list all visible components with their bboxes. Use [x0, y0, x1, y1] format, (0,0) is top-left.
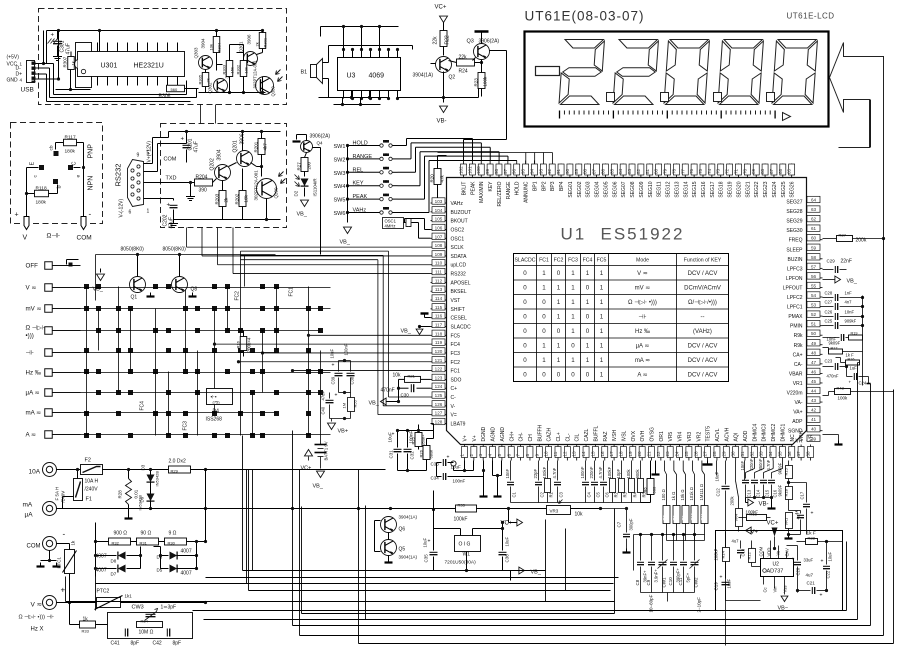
svg-text:300pF: 300pF	[629, 518, 634, 530]
svg-text:Hz Х: Hz Х	[31, 627, 44, 633]
svg-text:R34: R34	[141, 619, 149, 624]
svg-text:Mode: Mode	[636, 258, 649, 264]
svg-text:FC1: FC1	[451, 369, 461, 375]
svg-text:USB: USB	[21, 87, 34, 94]
svg-text:R17: R17	[831, 347, 838, 351]
DB9 labels	[114, 151, 150, 216]
svg-text:8pF: 8pF	[173, 641, 182, 647]
svg-text:V+: V+	[472, 435, 478, 441]
svg-text:93: 93	[538, 168, 543, 174]
resistor R6	[641, 461, 657, 503]
svg-text:OVSG: OVSG	[650, 427, 656, 442]
svg-text:BATT1 9V: BATT1 9V	[324, 441, 329, 460]
svg-text:V ≂: V ≂	[31, 602, 43, 609]
svg-text:R305: R305	[198, 74, 203, 84]
svg-text:FC3: FC3	[568, 258, 578, 264]
ground SGND	[823, 435, 843, 445]
U3 wires	[319, 25, 413, 106]
svg-text:20: 20	[637, 451, 642, 457]
svg-text:C15: C15	[765, 489, 770, 497]
wire	[151, 470, 208, 511]
wire USB data	[36, 31, 61, 102]
svg-text:66: 66	[778, 168, 783, 174]
PTC2	[95, 589, 133, 610]
svg-text:4u7: 4u7	[732, 539, 740, 544]
svg-text:100nF: 100nF	[344, 343, 349, 355]
svg-text:+: +	[332, 363, 335, 369]
svg-text:BKOUT: BKOUT	[451, 219, 468, 225]
resistor R202	[235, 169, 249, 220]
wire LBAT9	[396, 424, 434, 473]
svg-text:C25: C25	[825, 319, 833, 324]
ground TEST5	[703, 461, 713, 465]
power VB_ SLACDC	[401, 325, 431, 335]
svg-text:0: 0	[542, 328, 546, 335]
svg-text:C21: C21	[807, 581, 816, 586]
transistor Q8	[163, 247, 198, 297]
svg-text:VAHz: VAHz	[451, 201, 464, 207]
wire RS232 to U1 bus	[187, 228, 431, 274]
svg-text:PNP: PNP	[88, 144, 95, 159]
svg-text:95: 95	[521, 168, 526, 174]
svg-text:BUFFL: BUFFL	[593, 425, 599, 441]
svg-text:Q6: Q6	[399, 527, 406, 533]
svg-text:220nF: 220nF	[589, 466, 594, 478]
trimmer VR1	[784, 510, 799, 538]
svg-text:65: 65	[787, 168, 792, 174]
svg-text:180k: 180k	[36, 200, 47, 206]
buzzer B1	[301, 59, 323, 84]
svg-text:VC+: VC+	[301, 466, 312, 472]
svg-text:R38: R38	[808, 536, 816, 541]
svg-text:AGND: AGND	[491, 427, 497, 442]
svg-text:+: +	[720, 575, 723, 581]
svg-text:8pF: 8pF	[131, 641, 140, 647]
svg-text:0: 0	[557, 270, 561, 277]
power VC+ filled	[767, 521, 779, 551]
svg-text:1: 1	[571, 314, 575, 321]
svg-text:29: 29	[721, 451, 726, 457]
wire transistor net	[187, 45, 266, 98]
svg-text:U301: U301	[101, 63, 118, 70]
svg-text:VA-: VA-	[795, 400, 803, 406]
svg-text:/240V: /240V	[85, 487, 99, 493]
svg-text:27: 27	[703, 451, 708, 457]
wire	[438, 156, 447, 161]
svg-text:µA ≂: µA ≂	[26, 390, 40, 397]
svg-text:SW5: SW5	[334, 198, 346, 204]
svg-text:R9k: R9k	[794, 343, 803, 349]
diode D5	[157, 565, 199, 577]
svg-text:10: 10	[544, 451, 549, 457]
svg-text:R21: R21	[408, 374, 416, 379]
svg-text:28: 28	[712, 451, 717, 457]
resistor R43	[823, 386, 894, 401]
transistor Q201	[233, 133, 253, 166]
wire F1 top	[76, 468, 79, 479]
svg-text:R31: R31	[140, 541, 148, 546]
svg-text:1: 1	[557, 285, 561, 292]
svg-text:LPFON: LPFON	[786, 276, 803, 282]
svg-text:RS232: RS232	[451, 272, 467, 278]
probe V	[24, 217, 29, 230]
svg-text:1nF: 1nF	[845, 291, 853, 296]
svg-text:e: e	[77, 175, 82, 178]
svg-text:3906(2A): 3906(2A)	[310, 134, 331, 140]
svg-text:R117: R117	[65, 135, 76, 141]
svg-text:C32: C32	[410, 451, 415, 460]
svg-text:15: 15	[590, 451, 595, 457]
wire	[57, 544, 72, 605]
ground CESEL	[421, 314, 431, 318]
wire crow	[634, 535, 705, 602]
svg-text:0: 0	[523, 357, 527, 364]
resistor R118	[35, 186, 49, 206]
svg-text:1: 1	[586, 270, 590, 277]
capacitor C34	[431, 461, 486, 484]
svg-text:R6: R6	[643, 487, 648, 493]
svg-text:OSC2: OSC2	[451, 227, 465, 233]
diode D9	[138, 483, 155, 511]
svg-text:4MHz: 4MHz	[385, 224, 396, 229]
U2 section box	[716, 531, 843, 611]
transistor Q3	[467, 39, 500, 61]
svg-text:SEG19: SEG19	[728, 181, 734, 197]
svg-text:900 Ω: 900 Ω	[114, 531, 128, 537]
svg-text:61: 61	[811, 226, 817, 231]
wire SW5 to U1	[398, 156, 508, 199]
capacitor 4u7	[789, 511, 805, 535]
svg-text:1: 1	[557, 357, 561, 364]
svg-text:16: 16	[600, 451, 605, 457]
U1 top pins 102-65	[459, 161, 796, 207]
resistor R301	[255, 31, 268, 49]
PTC1	[57, 540, 77, 603]
capacitor C12	[715, 461, 730, 646]
F2 rating	[78, 479, 99, 493]
svg-text:SLEEP: SLEEP	[786, 247, 803, 253]
svg-text:10k: 10k	[244, 194, 249, 202]
svg-text:103: 103	[435, 199, 443, 204]
wire SW3 to U1	[398, 147, 491, 172]
svg-text:3906: 3906	[247, 34, 252, 45]
capacitor C22	[821, 540, 833, 592]
svg-text:470nF: 470nF	[827, 374, 839, 379]
COM TXD labels	[164, 157, 177, 182]
capacitor C38	[339, 343, 355, 394]
svg-text:118: 118	[435, 331, 443, 336]
svg-text:122: 122	[435, 367, 443, 372]
fuse F2	[81, 458, 103, 475]
svg-text:100kF: 100kF	[607, 466, 612, 478]
svg-text:200k: 200k	[730, 496, 735, 506]
svg-text:DCV / ACV: DCV / ACV	[688, 344, 718, 350]
svg-text:CH+: CH+	[509, 431, 515, 441]
svg-text:Vss: Vss	[783, 586, 788, 593]
capacitor C20	[787, 546, 814, 593]
svg-text:31: 31	[740, 451, 745, 457]
resistor R19	[823, 332, 863, 342]
svg-text:38: 38	[805, 451, 810, 457]
svg-text:113: 113	[435, 287, 443, 292]
svg-text:3904(1A): 3904(1A)	[413, 73, 434, 79]
svg-text:SEG13: SEG13	[674, 181, 680, 197]
svg-text:IVSH: IVSH	[612, 429, 618, 441]
svg-text:40: 40	[811, 427, 817, 432]
svg-text:+: +	[15, 212, 19, 219]
svg-text:+: +	[811, 511, 814, 517]
wire USB to RS232 verticals	[201, 105, 216, 124]
svg-text:Q200: Q200	[274, 187, 279, 199]
svg-text:0: 0	[523, 314, 527, 321]
terminal omega hz labels	[19, 614, 55, 633]
svg-text:SEG27: SEG27	[786, 200, 802, 206]
svg-text:ADP: ADP	[792, 419, 803, 425]
svg-text:17: 17	[609, 451, 614, 457]
svg-text:AOD: AOD	[743, 430, 749, 441]
photo transistor Q200	[254, 170, 286, 201]
svg-text:VR4: VR4	[678, 432, 684, 442]
Q4 wires	[293, 135, 321, 255]
svg-text:VB-: VB-	[759, 502, 769, 508]
svg-text:SLACDC: SLACDC	[451, 324, 472, 330]
resistor R303	[222, 61, 235, 77]
capacitor C18	[732, 539, 746, 559]
svg-text:R9: R9	[681, 515, 686, 521]
svg-text:C13: C13	[747, 489, 752, 497]
transistor Q2	[413, 57, 456, 81]
svg-text:C9: C9	[646, 579, 651, 585]
svg-text:+: +	[792, 557, 795, 563]
svg-text:1: 1	[557, 299, 561, 306]
wire 10A rail	[103, 469, 386, 471]
svg-text:C11: C11	[678, 577, 683, 585]
svg-text:SCLK: SCLK	[451, 245, 465, 251]
svg-text:FC4: FC4	[583, 258, 593, 264]
svg-text:C14: C14	[756, 489, 761, 497]
svg-text:C12: C12	[716, 488, 721, 497]
svg-text:F1: F1	[86, 497, 92, 503]
svg-text:0: 0	[523, 299, 527, 306]
svg-text:AGND: AGND	[500, 427, 506, 442]
svg-text:PEAK: PEAK	[470, 181, 476, 195]
svg-text:CAZL: CAZL	[584, 429, 590, 442]
resistor R14	[714, 532, 730, 579]
svg-text:R55: R55	[353, 399, 358, 407]
svg-text:Q202: Q202	[210, 158, 216, 170]
svg-text:11: 11	[553, 451, 558, 456]
socket outline	[76, 43, 92, 88]
svg-text:SW6: SW6	[334, 211, 346, 217]
svg-text:ES51922: ES51922	[601, 225, 685, 244]
svg-text:116: 116	[435, 314, 443, 319]
svg-text:35: 35	[777, 451, 782, 457]
svg-text:22: 22	[656, 451, 661, 457]
svg-text:36: 36	[787, 451, 792, 457]
svg-text:SW3: SW3	[334, 171, 346, 177]
svg-text:VB_: VB_	[313, 484, 324, 490]
svg-text:1k: 1k	[71, 61, 76, 65]
svg-text:+: +	[820, 593, 823, 599]
wire	[139, 547, 142, 569]
power VB- U2	[778, 593, 789, 612]
svg-text:SEG09: SEG09	[639, 181, 645, 197]
svg-text:R18: R18	[784, 488, 789, 496]
capacitor C29	[823, 259, 852, 274]
capacitor C31	[388, 431, 402, 471]
svg-text:Vin: Vin	[773, 586, 778, 593]
svg-text:8: 8	[525, 454, 530, 457]
svg-text:R1: R1	[549, 491, 554, 497]
resistor R27	[297, 153, 312, 172]
svg-text:59: 59	[811, 245, 817, 250]
svg-text:VST: VST	[451, 298, 461, 304]
capacitor column C25-C28	[823, 291, 865, 386]
svg-text:302PT12A-001: 302PT12A-001	[254, 170, 259, 201]
svg-text:47k: 47k	[440, 174, 445, 182]
svg-text:58: 58	[811, 255, 817, 260]
resistor R26	[419, 439, 434, 471]
svg-text:9k09F: 9k09F	[829, 341, 841, 346]
svg-text:3: 3	[478, 454, 483, 457]
net V+ pins 1-2	[451, 461, 474, 473]
svg-text:AQI: AQI	[734, 433, 740, 442]
tester terminal letters	[30, 145, 82, 188]
svg-text:R10: R10	[690, 512, 695, 520]
svg-text:19: 19	[628, 451, 633, 457]
svg-text:R12: R12	[747, 551, 752, 559]
NPN PNP labels	[88, 144, 95, 191]
svg-text:CW3: CW3	[132, 605, 144, 611]
svg-text:0: 0	[586, 328, 590, 335]
resistor R33	[80, 617, 108, 634]
svg-text:22k: 22k	[459, 55, 468, 61]
svg-text:1M: 1M	[342, 403, 347, 409]
svg-text:90: 90	[565, 168, 570, 174]
svg-text:SEG25: SEG25	[781, 181, 787, 197]
svg-text:BP3: BP3	[550, 181, 556, 191]
wire V	[57, 602, 97, 604]
svg-text:--: --	[701, 315, 705, 321]
svg-text:+: +	[61, 586, 66, 595]
svg-text:1: 1	[571, 285, 575, 292]
mode table	[514, 254, 729, 382]
svg-text:ACVH: ACVH	[724, 427, 730, 441]
svg-text:FC2: FC2	[451, 360, 461, 366]
svg-text:10A: 10A	[29, 469, 41, 476]
switch SW5 PEAK	[334, 194, 398, 204]
svg-text:100kF: 100kF	[454, 517, 468, 523]
svg-text:1k1: 1k1	[125, 594, 133, 599]
svg-text:C2: C2	[540, 491, 545, 497]
svg-text:75: 75	[698, 168, 703, 174]
svg-text:ISS268: ISS268	[206, 417, 223, 423]
power VB- mid	[746, 498, 769, 508]
svg-text:V: V	[23, 235, 28, 242]
svg-text:180k: 180k	[65, 149, 76, 155]
svg-text:900k: 900k	[635, 469, 640, 479]
svg-text:DHMC1: DHMC1	[780, 424, 786, 442]
wire 8050 rail	[96, 253, 276, 277]
svg-text:SEG23: SEG23	[763, 181, 769, 197]
svg-text:10pF: 10pF	[616, 469, 621, 479]
transistor Q301	[239, 34, 258, 66]
U1 left pins 103-128	[431, 198, 472, 428]
svg-text:73: 73	[716, 168, 721, 174]
svg-text:A ≂: A ≂	[637, 373, 647, 379]
svg-text:6: 6	[129, 210, 132, 216]
resistor R25	[411, 425, 426, 450]
svg-text:SEG21: SEG21	[745, 181, 751, 197]
svg-text:SEG26: SEG26	[790, 181, 796, 197]
svg-text:(VAHz): (VAHz)	[693, 329, 712, 335]
svg-text:C31: C31	[389, 450, 394, 459]
resistor R201	[254, 130, 268, 155]
svg-text:25: 25	[684, 451, 689, 457]
switch SW4 KEY	[334, 180, 398, 190]
resistor R28 0.01	[118, 468, 139, 519]
svg-text:NPN: NPN	[88, 176, 95, 191]
svg-text:5pF+: 5pF+	[686, 572, 691, 582]
svg-text:DCV / ACV: DCV / ACV	[688, 373, 718, 379]
svg-text:C18: C18	[741, 548, 746, 556]
svg-text:55: 55	[811, 283, 817, 288]
power V+	[746, 527, 759, 536]
svg-text:FC4: FC4	[140, 401, 146, 411]
svg-text:89: 89	[574, 168, 579, 174]
svg-text:500: 500	[652, 486, 657, 493]
svg-text:91: 91	[556, 168, 561, 174]
wire	[154, 540, 199, 569]
rotary switch function list	[26, 262, 53, 439]
SW common to VB_	[340, 146, 352, 246]
svg-text:C39: C39	[331, 376, 336, 384]
trimmer VR3	[509, 500, 603, 518]
capacitor row C1-C6 R1-R5	[505, 461, 647, 503]
wire SW2 to U1	[398, 143, 482, 161]
svg-text:10k: 10k	[393, 373, 402, 379]
capacitor C202	[144, 199, 179, 229]
svg-text:+: +	[51, 33, 55, 39]
svg-text:0: 0	[523, 328, 527, 335]
svg-text:560: 560	[171, 87, 178, 92]
polarity labels	[15, 210, 92, 219]
svg-text:C42: C42	[153, 641, 162, 647]
svg-text:C35: C35	[424, 554, 429, 563]
svg-text:68: 68	[760, 168, 765, 174]
svg-text:100kF: 100kF	[542, 466, 547, 478]
svg-text:RANGE: RANGE	[506, 181, 512, 199]
svg-text:4.7mF: 4.7mF	[598, 466, 603, 478]
wire Q3 collector	[464, 32, 507, 161]
resistor R23	[474, 63, 488, 97]
capacitor C201	[181, 130, 200, 163]
svg-text:84: 84	[618, 168, 623, 174]
svg-text:+: +	[821, 559, 824, 565]
svg-text:SEG03: SEG03	[586, 181, 592, 197]
diode D6	[157, 549, 199, 560]
svg-text:41: 41	[811, 417, 817, 422]
svg-text:FC5: FC5	[451, 333, 461, 339]
resistor R17	[823, 341, 863, 355]
svg-text:15k: 15k	[230, 67, 235, 73]
svg-text:BUZOUT: BUZOUT	[451, 210, 472, 216]
svg-text:R29: R29	[171, 469, 179, 474]
svg-text:(75): (75)	[213, 400, 221, 405]
svg-text:PMIN: PMIN	[790, 324, 803, 330]
wire rows	[53, 266, 81, 435]
svg-text:94: 94	[529, 168, 534, 174]
